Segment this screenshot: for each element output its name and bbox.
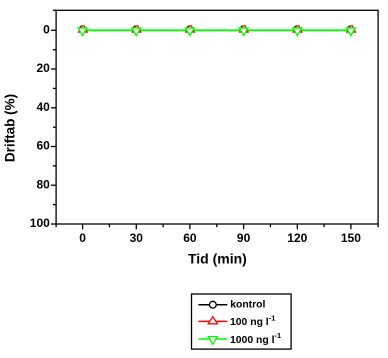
y-axis major ticks: [51, 30, 56, 224]
svg-text:Tid (min): Tid (min): [188, 251, 247, 267]
svg-text:150: 150: [341, 231, 361, 245]
data line (green, series 1000 ng/l on top): [83, 29, 351, 31]
legend row 3: 1000 ng/l: [198, 331, 281, 346]
legend row 1: kontrol: [198, 300, 265, 311]
y-axis minor ticks: [53, 10, 56, 204]
svg-text:100: 100: [30, 216, 50, 230]
svg-text:100 ng l-1: 100 ng l-1: [230, 313, 275, 328]
svg-text:90: 90: [237, 231, 251, 245]
svg-text:60: 60: [36, 139, 50, 153]
svg-text:120: 120: [287, 231, 307, 245]
svg-text:60: 60: [183, 231, 197, 245]
y tick labels: [30, 23, 50, 231]
svg-text:1000 ng l-1: 1000 ng l-1: [230, 331, 281, 346]
svg-text:40: 40: [36, 100, 50, 114]
svg-text:Driftab (%): Driftab (%): [3, 94, 18, 162]
legend box: [192, 294, 292, 349]
svg-text:0: 0: [43, 23, 50, 37]
plot frame: [56, 10, 378, 224]
svg-text:0: 0: [79, 231, 86, 245]
x-axis major ticks: [83, 224, 351, 229]
data markers: black circle + red up-triangle + green down-triangle: [78, 26, 355, 36]
svg-text:kontrol: kontrol: [230, 300, 265, 311]
legend row 2: 100 ng/l: [198, 313, 275, 328]
svg-text:20: 20: [36, 61, 50, 75]
svg-text:80: 80: [36, 177, 50, 191]
x-axis minor ticks: [56, 224, 378, 227]
x tick labels: [79, 231, 361, 245]
svg-text:30: 30: [130, 231, 144, 245]
